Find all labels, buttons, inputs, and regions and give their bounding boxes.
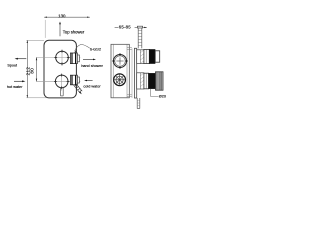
svg-text:S-G1/2: S-G1/2 [90, 47, 101, 51]
svg-text:hand shower: hand shower [81, 64, 103, 68]
svg-text:65-85: 65-85 [119, 25, 131, 30]
svg-text:Spout: Spout [7, 64, 17, 68]
svg-text:Top shower: Top shower [63, 29, 85, 34]
svg-text:80: 80 [30, 68, 35, 74]
svg-text:Ø20: Ø20 [159, 95, 166, 99]
svg-text:130: 130 [58, 14, 66, 19]
svg-text:hot water: hot water [7, 85, 23, 89]
svg-text:cold water: cold water [83, 85, 101, 89]
